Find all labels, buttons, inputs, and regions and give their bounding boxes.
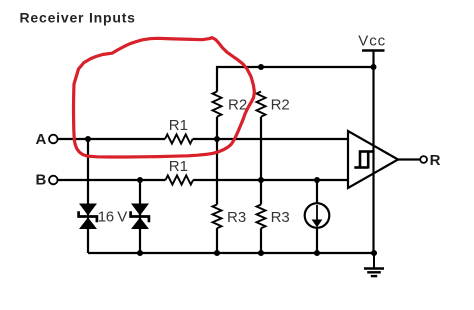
resistor R1 top	[165, 134, 193, 143]
wire current source bottom lead	[316, 228, 318, 254]
node top rail R2b junction	[258, 64, 264, 70]
resistor R3 right	[257, 205, 266, 229]
svg-text:R3: R3	[227, 209, 246, 226]
node bottom rail zener2 junction	[137, 250, 143, 256]
resistor R1 bottom	[166, 175, 194, 184]
resistor R2 right	[257, 92, 266, 117]
wire left divider bottom lead	[216, 228, 218, 253]
wire top rail	[217, 67, 374, 92]
wire A horizontal right	[193, 138, 348, 140]
wire right divider bottom lead	[260, 228, 262, 253]
node bottom rail R3a junction	[214, 250, 220, 256]
svg-text:B: B	[36, 171, 47, 188]
svg-text:16 V: 16 V	[98, 209, 128, 226]
wire B horizontal left	[58, 179, 166, 181]
svg-text:R2: R2	[271, 96, 290, 113]
op-amp U1 comparator	[348, 131, 398, 188]
Vcc symbol	[362, 49, 385, 51]
red annotation loop	[74, 38, 255, 157]
zener diode D2 bidirectional	[131, 204, 149, 230]
svg-text:R2: R2	[228, 96, 247, 113]
resistor R2 left	[213, 92, 222, 117]
svg-text:R3: R3	[271, 209, 290, 226]
node A-zener junction	[85, 136, 91, 142]
svg-text:Vcc: Vcc	[358, 32, 386, 49]
wire left divider branch	[216, 117, 218, 205]
wire A horizontal left	[58, 138, 165, 140]
svg-text:R1: R1	[169, 117, 188, 134]
svg-text:R1: R1	[169, 158, 188, 175]
wire zener branch 2	[139, 180, 141, 253]
wire current source top lead	[316, 180, 318, 204]
resistor R3 left	[213, 205, 222, 229]
node A-divider junction	[214, 136, 220, 142]
node bottom rail ground junction	[371, 250, 377, 256]
wire right divider branch	[260, 117, 262, 205]
zener diode D1 bidirectional	[79, 204, 97, 230]
terminal A	[49, 135, 58, 144]
node bottom rail current source junction	[314, 250, 320, 256]
node B-divider junction	[258, 177, 264, 183]
terminal B	[49, 176, 58, 185]
wire output	[398, 158, 420, 160]
current source I1	[305, 203, 330, 228]
ground	[364, 253, 384, 276]
wire bottom rail	[88, 252, 374, 254]
terminal R output	[420, 156, 427, 163]
node bottom rail R3b junction	[258, 250, 264, 256]
node top rail Vcc junction	[371, 64, 377, 70]
wire zener branch 1	[87, 139, 89, 253]
wire Vcc vertical	[372, 51, 374, 254]
node B-zener junction	[137, 177, 143, 183]
svg-text:A: A	[36, 131, 47, 148]
svg-text:R: R	[430, 152, 441, 169]
node B-current source junction	[314, 177, 320, 183]
wire B horizontal right	[193, 179, 348, 181]
svg-text:Receiver Inputs: Receiver Inputs	[20, 10, 136, 26]
hysteresis symbol	[354, 151, 373, 169]
